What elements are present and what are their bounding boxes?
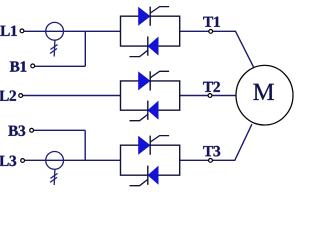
terminal T1 <box>209 30 213 34</box>
current sensor CT3 on L3 <box>46 152 64 186</box>
motor M1 <box>236 65 293 125</box>
wire L3 to triac block 3 <box>25 159 121 161</box>
box U1 <box>121 16 180 46</box>
triac module U1 <box>121 7 180 57</box>
box U3 <box>121 145 180 175</box>
SCR U2 top (forward) <box>139 72 151 90</box>
terminal L2 <box>19 94 23 98</box>
label L1 <box>0 26 17 36</box>
label L3 <box>0 156 16 167</box>
SCR U1 bottom (reverse) <box>148 37 158 55</box>
label T1 <box>203 17 220 27</box>
label B3 <box>8 126 25 137</box>
terminal B3 <box>30 128 34 132</box>
terminal L3 <box>21 159 25 163</box>
wire block2 output to T2 and motor <box>180 95 236 97</box>
terminal T2 <box>208 94 212 98</box>
box U2 <box>121 81 180 110</box>
wire B3 horizontal <box>34 129 85 131</box>
wire B3 vertical stub to L3 <box>84 130 86 161</box>
wire L1 to triac block 1 <box>24 30 120 32</box>
wire B1 horizontal <box>35 65 85 67</box>
triac module U2 <box>121 71 180 120</box>
label B1 <box>10 61 27 71</box>
wire B1 vertical stub to L1 <box>84 31 86 67</box>
wire block1 output to T1 and motor <box>180 31 254 67</box>
terminal B1 <box>31 64 35 68</box>
wire block3 output to T3 and motor <box>180 124 252 160</box>
triac module U3 <box>121 136 180 186</box>
motor label M <box>253 84 274 100</box>
current sensor CT1 on L1 <box>46 22 64 56</box>
label L2 <box>0 91 16 101</box>
label T3 <box>203 146 220 157</box>
SCR U1 top (forward) <box>139 7 151 25</box>
wire L2 to triac block 2 <box>23 95 121 97</box>
SCR U2 bottom (reverse) <box>148 101 158 119</box>
terminal T3 <box>209 159 213 163</box>
terminal L1 <box>20 29 24 33</box>
label T2 <box>203 82 220 92</box>
SCR U3 top (forward) <box>139 136 151 154</box>
SCR U3 bottom (reverse) <box>148 166 158 184</box>
